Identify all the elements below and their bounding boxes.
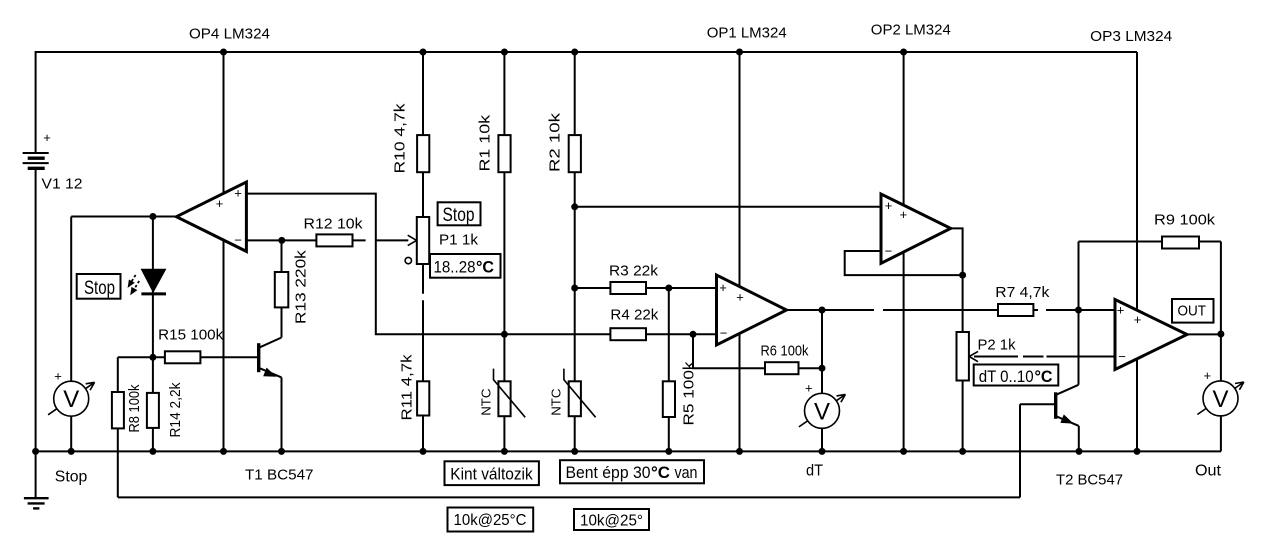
svg-text:−: −	[720, 326, 728, 341]
svg-text:−: −	[234, 232, 242, 247]
LED D1	[141, 269, 166, 294]
svg-text:R7 4,7k: R7 4,7k	[995, 284, 1050, 301]
ground	[24, 498, 49, 508]
wire T2 base column	[1020, 404, 1054, 497]
svg-text:+: +	[1134, 312, 1142, 327]
resistor R11 4,7k	[399, 354, 430, 421]
potentiometer P1 1k	[405, 217, 478, 264]
label box Stop at P1	[438, 202, 481, 226]
resistor R12 10k	[304, 215, 364, 246]
wire R10 P1 R11 column	[422, 52, 424, 451]
junction node OP3 noninverting	[1075, 307, 1082, 314]
svg-text:OP2 LM324: OP2 LM324	[871, 22, 951, 39]
wire P2 wiper to OP3 inverting	[974, 356, 1115, 358]
svg-text:+: +	[234, 186, 242, 201]
svg-text:NTC: NTC	[478, 389, 493, 416]
svg-text:R5 100k: R5 100k	[681, 361, 698, 426]
junction node OP2 output	[959, 272, 966, 279]
junction dots top rail	[220, 49, 907, 56]
svg-text:°C: °C	[476, 257, 494, 276]
svg-text:°C: °C	[651, 463, 670, 482]
wire OP1 supply column	[739, 52, 741, 451]
junction node R2 OP2 input	[571, 203, 578, 210]
wire OP1 output line to R7 and OP3	[787, 309, 1116, 311]
resistor R9 100k	[1154, 212, 1216, 249]
label box 10k@25°	[574, 509, 649, 530]
wire OP2 output and feedback loop	[845, 228, 963, 275]
svg-text:Stop: Stop	[84, 278, 115, 299]
junction dots bottom rail	[32, 448, 1140, 455]
svg-text:+: +	[43, 130, 51, 145]
wire R1 NTC1 column	[503, 52, 505, 451]
junction node T1 base	[149, 354, 156, 361]
resistor R14 2,2k	[147, 382, 184, 437]
op-amp U3 OP3	[1115, 300, 1187, 370]
op-amp U2 OP2	[881, 194, 951, 263]
junction node OP4 output	[149, 213, 156, 220]
svg-text:T1 BC547: T1 BC547	[245, 466, 314, 483]
resistor R2 10k	[546, 112, 581, 172]
wire bottom ground rail	[36, 450, 1221, 452]
resistor R7 4,7k	[995, 284, 1050, 316]
transistor Q2 T2 BC547	[1056, 392, 1123, 488]
wire long bottom feedback to T2 base	[118, 496, 1020, 498]
svg-text:R2 10k: R2 10k	[546, 112, 563, 172]
resistor R8 100k	[112, 384, 143, 432]
svg-text:R15 100k: R15 100k	[158, 327, 223, 344]
LED light arrows	[128, 275, 140, 295]
svg-text:P2 1k: P2 1k	[978, 336, 1016, 353]
wire R6 feedback tap	[693, 334, 822, 368]
svg-text:+: +	[1117, 303, 1125, 318]
label box Bent épp 30°C van	[560, 460, 704, 483]
svg-text:Stop: Stop	[443, 205, 475, 226]
svg-text:dT 0..10: dT 0..10	[979, 367, 1034, 386]
svg-text:R13 220k: R13 220k	[292, 250, 309, 324]
wire OP2 output to P2 column	[962, 275, 964, 451]
svg-text:dT: dT	[806, 462, 823, 479]
wire OP3 output	[1187, 333, 1221, 335]
wire R8 jog from base node	[118, 357, 153, 497]
svg-text:+: +	[719, 280, 727, 295]
svg-text:T2 BC547: T2 BC547	[1056, 471, 1123, 488]
junction node R4 right	[690, 331, 697, 338]
wire LED / R14 column	[152, 217, 154, 452]
svg-text:−: −	[1118, 349, 1126, 364]
voltmeter VM2 dT	[799, 381, 846, 429]
wire OP4 supply column	[223, 52, 225, 451]
wire R2 node to OP2 noninverting	[575, 206, 881, 208]
svg-text:+: +	[736, 290, 744, 305]
svg-text:R6 100k: R6 100k	[761, 342, 809, 359]
svg-text:R3 22k: R3 22k	[609, 263, 659, 280]
wire top supply rail	[36, 51, 1137, 53]
svg-text:R8 100k: R8 100k	[126, 384, 143, 432]
svg-text:OP1 LM324: OP1 LM324	[707, 24, 787, 41]
svg-text:+: +	[1204, 368, 1212, 383]
junction node OP4 inverting	[278, 237, 285, 244]
junction node R6 right	[819, 365, 826, 372]
resistor R10 4,7k	[392, 103, 430, 174]
svg-text:V1 12: V1 12	[42, 176, 83, 193]
resistor R3 22k	[609, 263, 659, 294]
svg-text:Stop: Stop	[55, 468, 88, 485]
svg-text:OP3 LM324: OP3 LM324	[1090, 28, 1172, 45]
label box 10k@25°C	[448, 508, 534, 532]
svg-text:+: +	[900, 207, 908, 222]
svg-text:R1 10k: R1 10k	[477, 114, 494, 171]
svg-text:V: V	[1212, 386, 1228, 413]
resistor R15 100k	[158, 327, 223, 364]
resistor R5 100k	[663, 361, 698, 426]
label box Kint változik	[445, 461, 539, 485]
wire OP2 supply column	[903, 52, 905, 451]
svg-text:R9 100k: R9 100k	[1154, 212, 1216, 229]
junction node R3 left	[571, 285, 578, 292]
svg-text:R14 2,2k: R14 2,2k	[167, 382, 184, 437]
voltmeter VM3 Out	[1197, 368, 1244, 416]
wire OP3 supply column	[1136, 52, 1138, 451]
svg-text:−: −	[885, 244, 893, 259]
svg-text:°C: °C	[1035, 367, 1053, 386]
svg-text:OUT: OUT	[1178, 303, 1207, 320]
resistor R6 100k	[761, 342, 809, 374]
wire OP4 inverting / R12 line to P1 wiper	[246, 239, 408, 241]
svg-text:+: +	[54, 369, 62, 384]
svg-text:10k@25°: 10k@25°	[580, 513, 643, 530]
wire left battery column	[35, 51, 37, 451]
svg-text:+: +	[216, 196, 224, 211]
junction node R3 right R5	[665, 285, 672, 292]
potentiometer P2 1k	[957, 332, 1016, 381]
svg-text:18..28: 18..28	[434, 257, 476, 276]
resistor R13 220k	[275, 250, 310, 324]
transistor Q1 T1 BC547	[245, 338, 314, 484]
svg-text:OP4 LM324: OP4 LM324	[189, 26, 270, 43]
wire R13 T1-collector column	[281, 240, 283, 337]
wire R5 column	[668, 288, 670, 451]
junction node R1 bottom	[501, 331, 508, 338]
wire T1 base	[153, 356, 257, 358]
op-amp U1 OP1	[717, 275, 787, 345]
wire R9 positive feedback loop	[1079, 242, 1221, 452]
label box 18..28°C	[430, 254, 501, 278]
wire T2 emitter to rail	[1057, 416, 1079, 451]
wire OP4 output to voltmeter	[71, 216, 176, 218]
wire R3 line to OP1 noninverting	[575, 287, 717, 289]
svg-text:R10 4,7k: R10 4,7k	[392, 103, 409, 174]
label box OUT	[1172, 299, 1214, 323]
label box dT 0..10°C	[974, 365, 1059, 386]
voltmeter VM1 Stop	[48, 369, 95, 417]
wire ground stem	[35, 451, 37, 497]
resistor R4 22k	[610, 307, 659, 341]
svg-text:R4 22k: R4 22k	[610, 307, 659, 324]
svg-text:R12 10k: R12 10k	[304, 215, 364, 232]
junction node OP3 output	[1217, 331, 1224, 338]
wire R2 NTC2 column	[574, 52, 576, 451]
thermistor NTC2	[549, 369, 596, 418]
svg-text:NTC: NTC	[549, 389, 564, 416]
op-amp U4 OP4	[176, 182, 246, 251]
label box Stop at LED	[77, 274, 121, 299]
wire OP4 noninverting feedback to R4 node	[246, 194, 716, 335]
junction node OP1 output	[819, 307, 826, 314]
svg-text:R11 4,7k: R11 4,7k	[399, 354, 416, 421]
svg-text:van: van	[671, 463, 698, 482]
wire dT voltmeter column	[821, 310, 823, 451]
wire T1 emitter column	[281, 377, 283, 451]
svg-text:P1 1k: P1 1k	[439, 232, 479, 249]
svg-text:+: +	[805, 381, 813, 396]
resistor R1 10k	[477, 114, 511, 172]
svg-text:+: +	[885, 198, 893, 213]
svg-text:10k@25°C: 10k@25°C	[454, 512, 527, 529]
thermistor NTC1	[478, 369, 525, 418]
svg-text:Out: Out	[1195, 462, 1222, 479]
wire T2 collector column to OP3 + node	[1057, 242, 1079, 395]
wire stop-voltmeter column	[70, 217, 72, 452]
svg-text:V: V	[814, 398, 830, 425]
svg-text:V: V	[63, 386, 79, 413]
svg-text:Kint változik: Kint változik	[450, 465, 533, 484]
battery V1 12	[23, 130, 83, 193]
svg-text:Bent épp 30: Bent épp 30	[566, 463, 651, 482]
